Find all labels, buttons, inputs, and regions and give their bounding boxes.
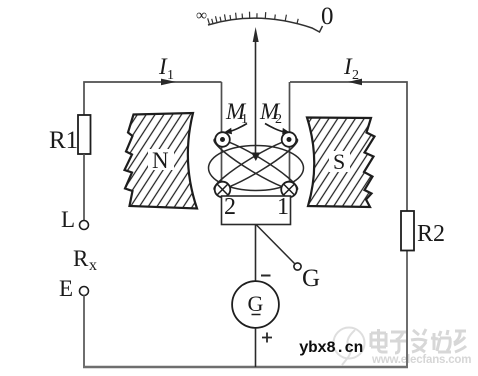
coil wire end bottom-left (current in, X) xyxy=(215,182,231,198)
terminal L circle xyxy=(80,221,89,230)
resistor R1 xyxy=(78,115,91,154)
generator G xyxy=(232,281,279,328)
magnet N pole xyxy=(125,113,198,209)
watermark chinese text 电子发烧友 xyxy=(371,329,466,353)
svg-text:x: x xyxy=(89,257,97,274)
svg-text:G: G xyxy=(302,265,320,292)
wire top-right with corner xyxy=(290,82,407,212)
minus sign xyxy=(261,275,271,277)
svg-text:www.elecfans.com: www.elecfans.com xyxy=(371,354,471,366)
meter scale arc xyxy=(208,18,323,32)
wire bottom xyxy=(83,366,408,368)
wire right lower xyxy=(406,250,408,367)
coil terminal box xyxy=(222,196,291,225)
wire E to bottom xyxy=(83,296,85,368)
svg-text:1: 1 xyxy=(167,68,174,83)
svg-text:E: E xyxy=(59,276,73,301)
coil 1 loop xyxy=(210,133,301,196)
svg-text:L: L xyxy=(61,207,75,232)
svg-text:G: G xyxy=(248,291,264,316)
svg-text:R: R xyxy=(73,246,89,271)
magnet S pole xyxy=(307,118,375,208)
switch wire to guard xyxy=(256,225,295,264)
label S xyxy=(329,151,350,172)
guard terminal circle xyxy=(294,263,301,270)
svg-text:∞: ∞ xyxy=(196,7,207,24)
current arrow I1 xyxy=(161,79,176,86)
svg-text:0: 0 xyxy=(321,3,334,30)
terminal E circle xyxy=(80,287,89,296)
wire box to generator xyxy=(255,225,257,282)
svg-text:N: N xyxy=(152,148,169,173)
svg-text:2: 2 xyxy=(275,112,282,127)
coil core ellipse xyxy=(209,146,304,191)
watermark logo circle xyxy=(334,328,365,366)
svg-text:1: 1 xyxy=(241,112,248,127)
svg-text:S: S xyxy=(333,149,345,174)
torque arrow M1 xyxy=(229,124,248,132)
label N xyxy=(148,149,174,170)
coil frame left wire xyxy=(221,82,223,196)
coil 2 loop xyxy=(210,133,301,196)
plus sign xyxy=(262,337,272,339)
wire R1 to L terminal xyxy=(83,154,85,221)
coil frame right wire xyxy=(289,82,291,196)
svg-text:2: 2 xyxy=(224,194,236,220)
svg-text:R1: R1 xyxy=(49,127,78,154)
svg-text:2: 2 xyxy=(352,68,359,83)
current arrow I2 xyxy=(348,79,362,86)
wire generator to bottom xyxy=(255,328,257,367)
pointer arrowhead xyxy=(253,27,259,42)
svg-text:ybx8.cn: ybx8.cn xyxy=(299,339,363,357)
wire top-left with corner xyxy=(84,82,222,116)
coil wire end top-right (current out, dot) xyxy=(282,132,297,147)
pivot xyxy=(251,153,260,162)
resistor R2 xyxy=(401,211,414,251)
scale tick marks xyxy=(208,12,299,25)
svg-text:1: 1 xyxy=(277,194,289,220)
coil wire end top-left (current out, dot) xyxy=(215,132,230,147)
svg-text:R2: R2 xyxy=(417,221,445,247)
pointer needle xyxy=(255,40,257,156)
torque arrow M2 xyxy=(265,124,284,132)
coil wire end bottom-right (current in, X) xyxy=(281,182,297,198)
